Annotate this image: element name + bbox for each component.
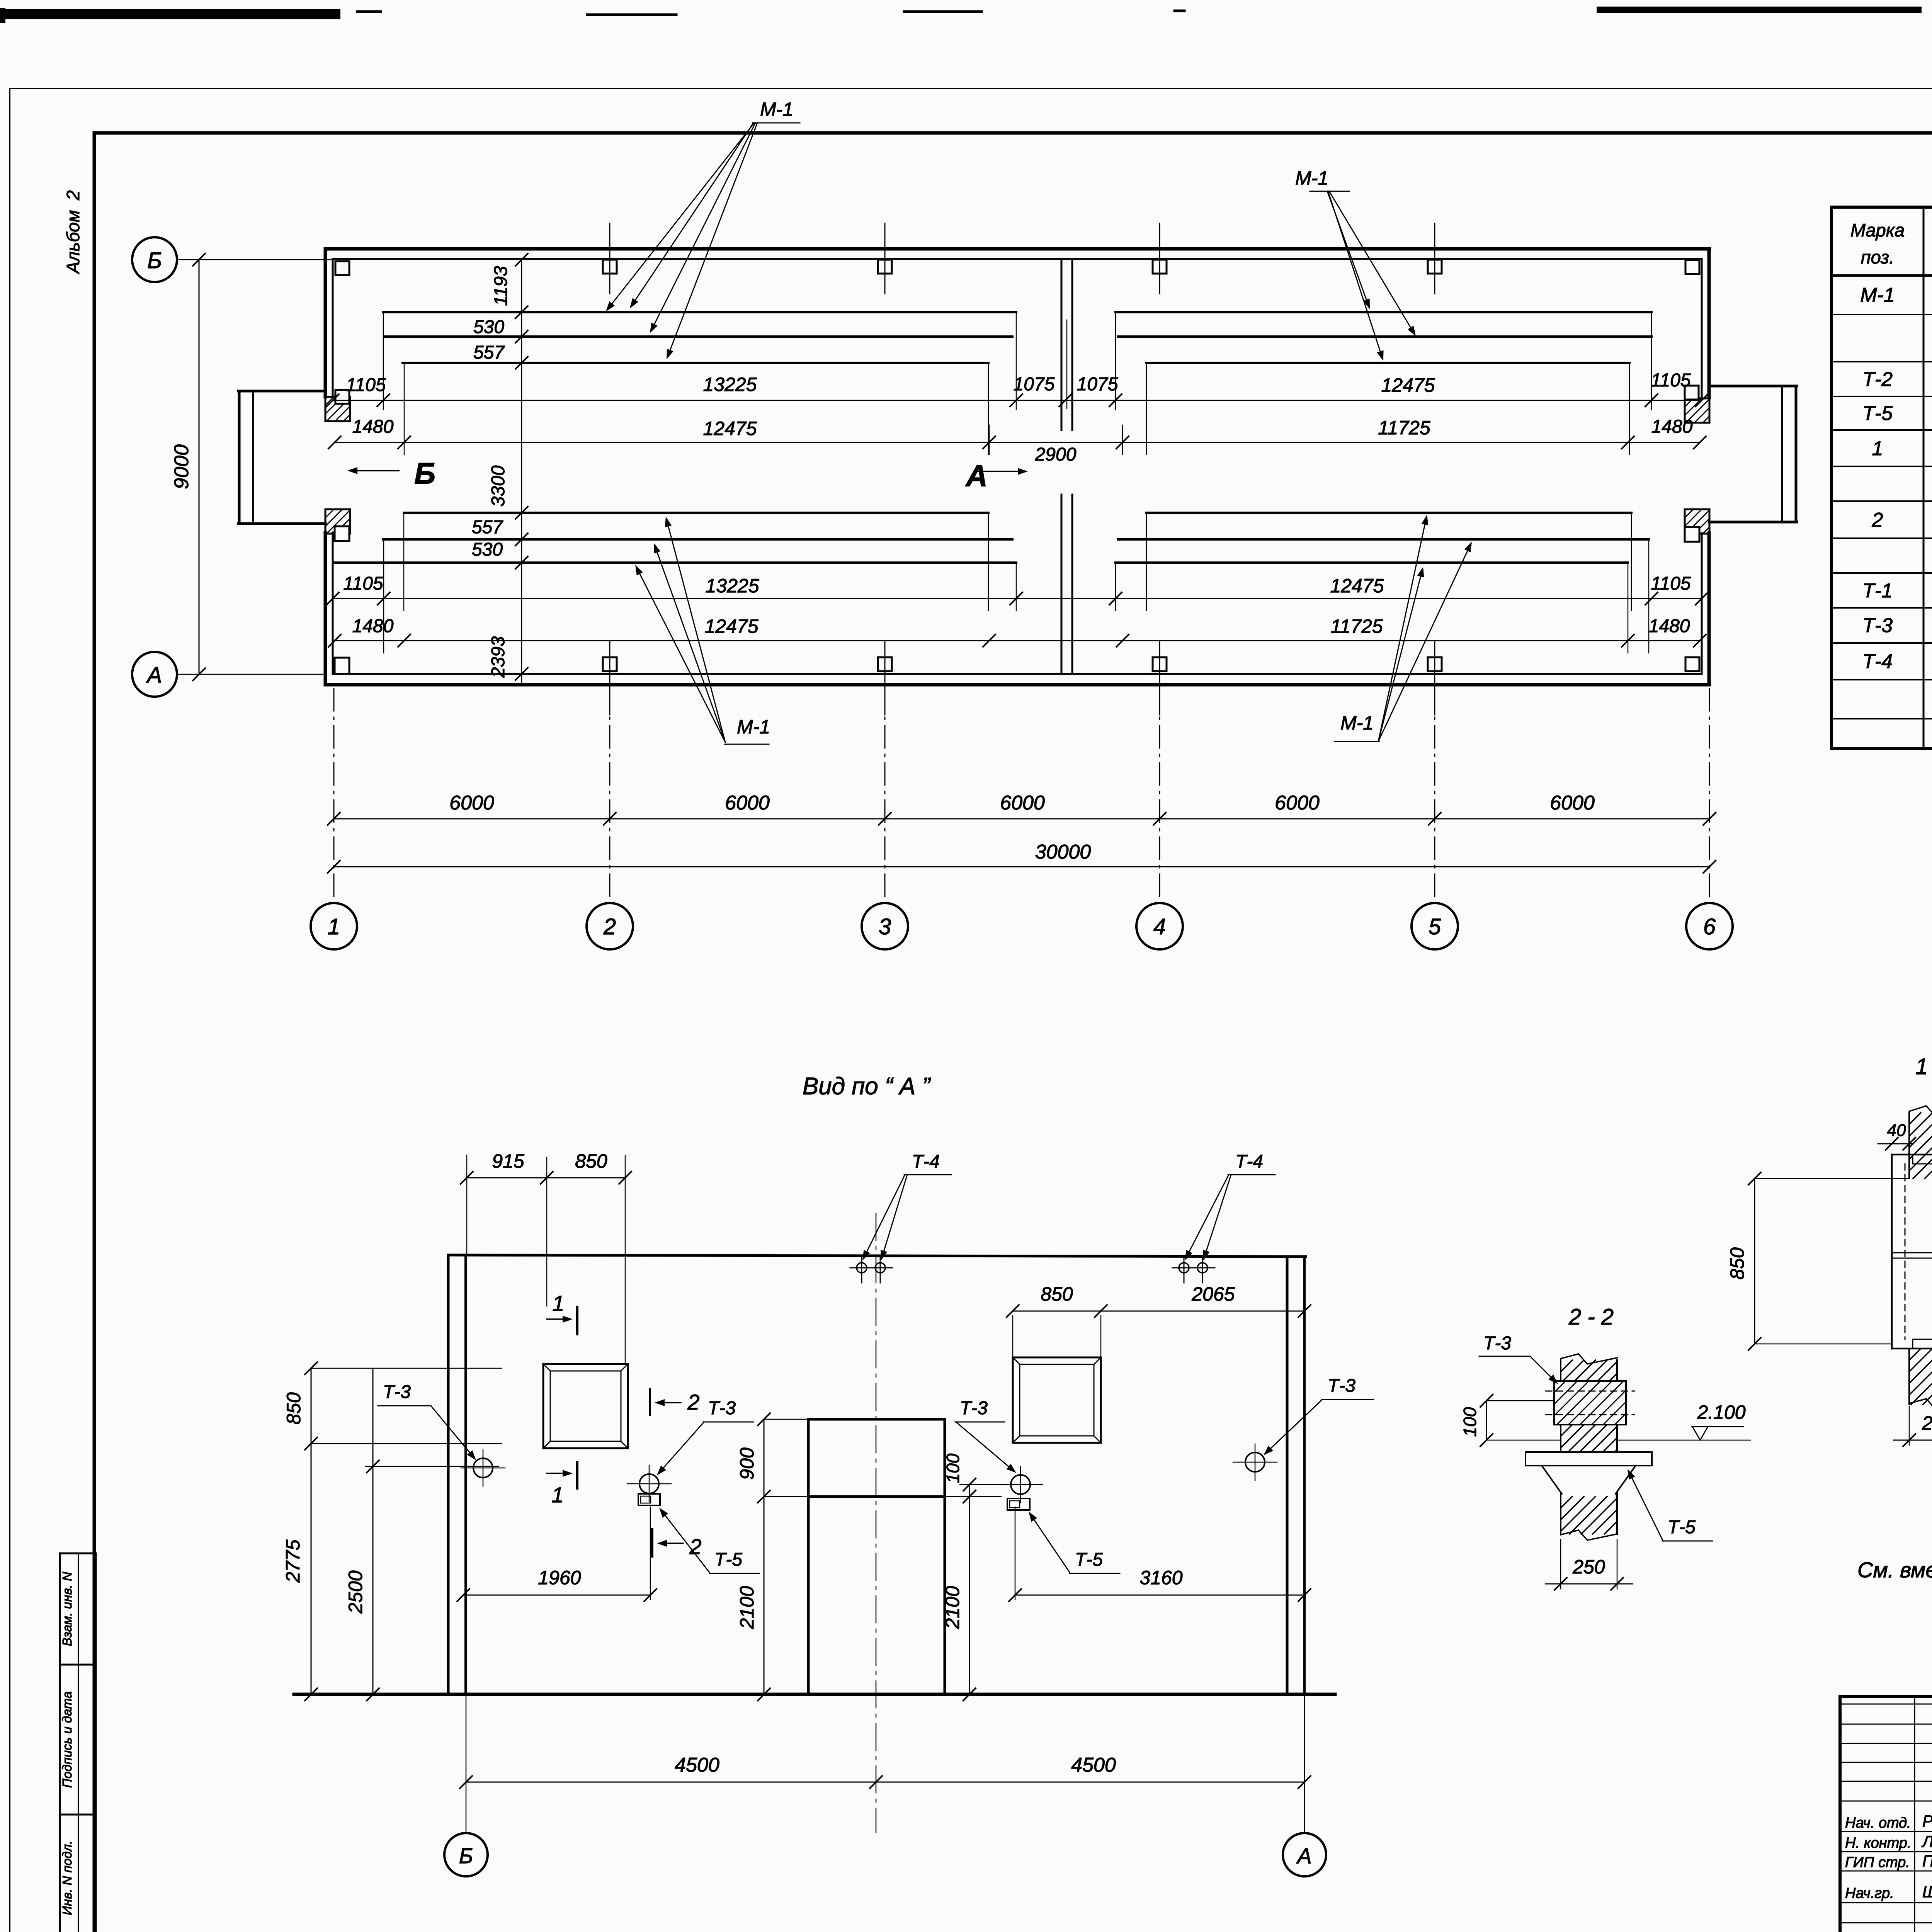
svg-text:12475: 12475: [704, 616, 758, 637]
svg-text:900: 900: [736, 1447, 758, 1480]
dimension row 6000: [328, 792, 1716, 825]
section 2-2 wall middle: [1561, 1425, 1617, 1452]
svg-text:Нач. отд.: Нач. отд.: [1845, 1815, 1911, 1831]
svg-text:850: 850: [283, 1392, 304, 1425]
plan right wall inner: [1701, 259, 1703, 674]
svg-text:1: 1: [552, 1291, 564, 1315]
svg-text:850: 850: [1726, 1247, 1748, 1280]
floor channel line L2: [385, 335, 1651, 338]
plan extension lines bottom: [384, 513, 1649, 653]
svg-text:1075: 1075: [1077, 374, 1118, 395]
svg-text:12475: 12475: [1381, 374, 1435, 396]
section 2-2 elevation 2.100: [1617, 1401, 1750, 1440]
svg-text:Парфенов: Парфенов: [1922, 1852, 1932, 1870]
svg-text:30000: 30000: [1035, 841, 1091, 863]
svg-text:1075: 1075: [1014, 374, 1055, 395]
floor channel line L3: [403, 362, 1629, 364]
title block role 3: [1845, 1852, 1932, 1871]
svg-text:2: 2: [687, 1390, 699, 1414]
svg-text:Т-3: Т-3: [383, 1382, 411, 1402]
section mark 1 upper: [547, 1291, 577, 1334]
svg-text:Т-5: Т-5: [1075, 1549, 1103, 1570]
svg-text:Т-2: Т-2: [1862, 368, 1893, 391]
view A dimension 850 2775: [282, 1362, 502, 1701]
scan artifact dashes top-middle: [587, 11, 1184, 15]
label T-5 right: [1029, 1512, 1120, 1573]
plan dimension line B bottom: [328, 616, 1706, 647]
svg-text:12475: 12475: [1330, 575, 1384, 597]
spec row T-4: [1862, 650, 1932, 673]
svg-text:Т-5: Т-5: [1668, 1517, 1696, 1537]
svg-text:Т-4: Т-4: [1235, 1151, 1263, 1172]
svg-text:2500: 2500: [345, 1570, 366, 1614]
label M-1 top-left: [606, 99, 800, 359]
svg-text:5: 5: [1429, 914, 1441, 939]
stamp label podpis: [60, 1691, 74, 1788]
title block role 4: [1845, 1883, 1932, 1902]
section 1-1 dimension 850: [1726, 1172, 1909, 1350]
spec row 2: [1872, 509, 1932, 531]
plan dimension line B top: [328, 417, 1706, 465]
M-1 squares bottom wall: [335, 657, 1699, 674]
svg-text:1480: 1480: [1651, 417, 1693, 437]
embedded item T-2 bottom-right: [1685, 509, 1709, 534]
svg-text:2775: 2775: [282, 1539, 304, 1583]
section mark 1 lower: [547, 1462, 577, 1507]
svg-text:1960: 1960: [538, 1567, 581, 1588]
svg-text:11725: 11725: [1330, 616, 1383, 637]
M-1 squares top wall: [335, 260, 1699, 275]
svg-text:поз.: поз.: [1861, 247, 1894, 267]
svg-text:2100: 2100: [736, 1586, 758, 1629]
svg-text:1480: 1480: [1649, 616, 1690, 636]
spec row M-1: [1860, 284, 1932, 306]
svg-text:4: 4: [1153, 914, 1166, 939]
svg-text:1193: 1193: [491, 266, 511, 306]
svg-text:2.100: 2.100: [1697, 1401, 1745, 1423]
view A T-5 mark right: [1007, 1498, 1030, 1510]
grid axis dash-dot lines: [334, 689, 1709, 903]
M-1 square jamb top-right: [1685, 386, 1699, 400]
title block role 1: [1845, 1812, 1932, 1832]
svg-text:1: 1: [328, 914, 340, 939]
label T-4 left: [862, 1151, 951, 1260]
svg-text:М-1: М-1: [1860, 284, 1895, 306]
view A dimension 915 850: [461, 1150, 631, 1364]
view A door centerline: [876, 1213, 877, 1832]
left stamp boxes: [60, 1553, 96, 1932]
spec row T-5: [1862, 402, 1932, 425]
section 1-1 wall lower: [1909, 1349, 1932, 1410]
svg-text:Т-1: Т-1: [1862, 580, 1893, 602]
stamp label inv: [60, 1841, 74, 1915]
note see sheets: [1857, 1558, 1932, 1582]
svg-text:1: 1: [1872, 437, 1883, 460]
right portal: [1709, 386, 1797, 522]
svg-text:А: А: [1296, 1844, 1311, 1868]
view A wall right edge: [1287, 1257, 1304, 1694]
svg-text:4500: 4500: [1071, 1754, 1116, 1776]
grid circle 3: [862, 903, 908, 949]
view A dimension 100 2100: [942, 1453, 1009, 1701]
svg-text:2065: 2065: [1191, 1283, 1235, 1305]
svg-text:2900: 2900: [1035, 444, 1077, 465]
floor channel line B2: [383, 538, 1649, 541]
svg-text:М-1: М-1: [737, 716, 770, 738]
section mark 2 lower: [652, 1529, 702, 1559]
plan top wall inner: [333, 258, 1702, 260]
album label rotated: [63, 190, 83, 275]
svg-text:11725: 11725: [1378, 417, 1430, 439]
plan left wall inner: [332, 259, 334, 674]
svg-text:2: 2: [603, 914, 616, 939]
label T-3 left-centre: [657, 1398, 753, 1475]
label M-1 top-right: [1295, 167, 1416, 361]
svg-text:3: 3: [879, 914, 891, 939]
svg-text:4500: 4500: [675, 1754, 719, 1776]
title block grid: [1840, 1696, 1932, 1932]
svg-text:3300: 3300: [488, 465, 509, 507]
label T-3 right-centre: [955, 1398, 1016, 1473]
view A dimension 900 2100: [736, 1413, 808, 1701]
svg-text:Лизунова: Лизунова: [1921, 1832, 1932, 1850]
spec table grid: [1832, 207, 1932, 748]
view A grid circle A: [1283, 1833, 1326, 1876]
svg-text:Марка: Марка: [1850, 220, 1905, 240]
svg-text:Б: Б: [459, 1844, 473, 1868]
floor channel line B3: [404, 512, 1631, 514]
svg-text:100: 100: [1460, 1407, 1480, 1437]
label T-3 right wall: [1264, 1376, 1374, 1455]
svg-text:1105: 1105: [1651, 573, 1691, 594]
svg-text:Б: Б: [147, 248, 162, 273]
svg-text:2: 2: [1872, 509, 1883, 531]
grid circle 2: [587, 903, 633, 949]
label T-4 right: [1185, 1151, 1275, 1260]
svg-text:2 - 2: 2 - 2: [1568, 1304, 1614, 1330]
fire partition upper: [1061, 259, 1072, 430]
section 2-2 wall lower: [1561, 1492, 1617, 1540]
plan central vertical dimension chain: [472, 253, 528, 685]
view A T-4 anchors right: [1172, 1256, 1215, 1283]
label M-1 bottom-left: [635, 517, 770, 744]
svg-text:100: 100: [943, 1453, 963, 1483]
svg-text:Т-5: Т-5: [714, 1549, 742, 1570]
svg-text:40: 40: [1887, 1121, 1906, 1140]
svg-text:1 - 1: 1 - 1: [1915, 1054, 1932, 1079]
section arrow A: [965, 459, 1028, 493]
svg-text:12475: 12475: [703, 418, 757, 439]
floor channel line B1: [334, 561, 1628, 564]
svg-text:ГИП стр.: ГИП стр.: [1845, 1854, 1910, 1871]
fire partition lower: [1061, 495, 1072, 674]
section 2-2 label T-5: [1628, 1469, 1713, 1541]
svg-text:6000: 6000: [1550, 792, 1595, 814]
svg-text:Инв. N подл.: Инв. N подл.: [60, 1841, 74, 1915]
section 2-2 item T-5 seat: [1526, 1452, 1652, 1494]
svg-text:Вид по “ А ”: Вид по “ А ”: [803, 1073, 931, 1100]
svg-text:557: 557: [472, 517, 503, 537]
view A T-5 mark left: [638, 1494, 660, 1505]
grid circle 1: [311, 903, 357, 949]
svg-text:915: 915: [492, 1150, 524, 1172]
section 2-2 label T-3: [1479, 1333, 1558, 1384]
svg-text:1: 1: [551, 1483, 563, 1507]
view A ground line: [294, 1693, 1335, 1696]
grid circle A plan: [132, 652, 325, 697]
svg-text:3160: 3160: [1139, 1567, 1182, 1588]
view A dimension 2500: [345, 1368, 499, 1701]
svg-text:М-1: М-1: [1340, 712, 1374, 734]
svg-text:Т-4: Т-4: [1862, 650, 1893, 673]
view A T-3 pipe left wall: [461, 1450, 505, 1486]
svg-text:Нач.гр.: Нач.гр.: [1845, 1885, 1894, 1901]
embedded item T-2 bottom-left: [325, 509, 350, 534]
section 2-2 wall upper: [1561, 1354, 1617, 1381]
svg-text:Роменский: Роменский: [1922, 1812, 1932, 1830]
section 2-2 dimension 250: [1546, 1539, 1633, 1590]
view A T-3 pipe right wall: [1233, 1444, 1277, 1480]
svg-text:9000: 9000: [170, 444, 193, 489]
section 1-1 dimension 40 left: [1878, 1121, 1915, 1150]
svg-text:1480: 1480: [352, 616, 394, 636]
view A T-3 pipe right-centre: [998, 1466, 1043, 1503]
plan right wall outer: [1708, 249, 1711, 685]
plan top wall outer: [325, 247, 1709, 251]
plan bottom wall outer: [325, 683, 1709, 687]
spec table header texts: [1850, 220, 1932, 270]
label T-3 left wall: [378, 1382, 476, 1460]
view A wall top: [448, 1255, 1306, 1257]
svg-text:530: 530: [472, 539, 503, 560]
title block role 2: [1845, 1832, 1932, 1852]
svg-text:13225: 13225: [705, 575, 759, 597]
svg-text:Т-3: Т-3: [960, 1398, 988, 1418]
svg-text:Н. контр.: Н. контр.: [1845, 1835, 1911, 1851]
view A T-4 anchors left: [850, 1256, 893, 1283]
svg-text:Т-3: Т-3: [1483, 1333, 1511, 1354]
svg-text:2393: 2393: [488, 636, 509, 678]
section 1-1 channel item T-2: [1892, 1155, 1932, 1349]
svg-text:1105: 1105: [1651, 370, 1691, 391]
embedded item T-2 top-left: [325, 397, 350, 421]
svg-text:6000: 6000: [725, 792, 770, 814]
embedded item T-2 top-right: [1685, 398, 1709, 423]
svg-text:6000: 6000: [1000, 792, 1045, 814]
scan speck left edge: [0, 8, 5, 23]
svg-text:А: А: [146, 663, 162, 688]
svg-text:Шленова: Шленова: [1922, 1883, 1932, 1901]
svg-text:М-1: М-1: [1295, 167, 1328, 189]
svg-text:850: 850: [575, 1150, 607, 1172]
stamp label vzam: [60, 1572, 74, 1646]
label M-1 bottom-right: [1334, 515, 1472, 742]
plan bottom wall inner: [333, 673, 1702, 675]
svg-text:Альбом 2: Альбом 2: [63, 190, 83, 275]
view A dimension 3160: [1009, 1507, 1311, 1601]
left portal: [238, 391, 325, 524]
svg-text:6: 6: [1703, 914, 1716, 939]
svg-text:Т-3: Т-3: [1328, 1376, 1355, 1396]
M-1 square jamb bottom-right: [1685, 527, 1699, 542]
svg-text:1480: 1480: [352, 417, 394, 437]
svg-text:850: 850: [1041, 1283, 1073, 1305]
M-1 square jamb top-left: [335, 390, 349, 404]
svg-text:Т-3: Т-3: [1862, 614, 1893, 637]
spec row T-3: [1862, 614, 1932, 637]
section 2-2 pipe T-3: [1546, 1381, 1634, 1425]
axis stubs bottom wall: [610, 641, 1435, 715]
view A dimension 850 2065: [1007, 1283, 1311, 1357]
svg-text:6000: 6000: [449, 792, 494, 814]
svg-text:Подпись и дата: Подпись и дата: [60, 1691, 74, 1788]
svg-text:Взам. инв. N: Взам. инв. N: [60, 1572, 74, 1646]
plan dimension line A top: [327, 370, 1708, 406]
svg-text:557: 557: [473, 342, 505, 363]
svg-text:Т-3: Т-3: [708, 1398, 736, 1418]
svg-text:Т-5: Т-5: [1862, 402, 1893, 425]
svg-text:1105: 1105: [343, 573, 383, 594]
label T-5 left: [659, 1508, 759, 1573]
svg-text:Б: Б: [414, 456, 435, 490]
view A door opening: [808, 1419, 945, 1694]
view A dimension 1960: [457, 1507, 656, 1601]
axis stubs top wall: [610, 223, 1435, 294]
svg-text:Т-4: Т-4: [912, 1151, 940, 1172]
view A wall left edge: [448, 1255, 466, 1694]
scan artifact bar top-right: [1600, 5, 1932, 10]
M-1 square jamb bottom-left: [335, 526, 349, 541]
svg-text:530: 530: [473, 317, 504, 337]
section 2-2 dimension 100: [1460, 1395, 1561, 1446]
floor channel line L1: [383, 311, 1651, 313]
view A dimension 4500 4500: [460, 1694, 1311, 1832]
spec row T-2: [1862, 368, 1932, 391]
svg-text:2100: 2100: [942, 1586, 963, 1629]
svg-text:250: 250: [1572, 1556, 1605, 1578]
view A T-3 pipe left-centre: [627, 1466, 671, 1502]
dimension 30000: [328, 841, 1716, 873]
view A grid circle B: [444, 1833, 488, 1876]
view A left opening: [543, 1364, 628, 1448]
svg-text:6000: 6000: [1275, 792, 1320, 814]
plan left wall outer: [324, 249, 327, 685]
svg-text:2: 2: [689, 1534, 701, 1559]
grid circle 4: [1136, 903, 1183, 949]
plan extension lines top: [383, 312, 1651, 454]
section arrow B: [347, 456, 435, 490]
dimension 9000: [170, 253, 205, 680]
svg-text:См. вместе с листами АС- 3,13: См. вместе с листами АС- 3,13,16,17: [1857, 1558, 1932, 1582]
svg-text:А: А: [965, 459, 988, 493]
section mark 2 upper: [650, 1389, 700, 1415]
grid circle B plan: [132, 237, 333, 282]
section 2-2 title: [1568, 1304, 1614, 1330]
svg-text:М-1: М-1: [760, 99, 793, 120]
svg-text:13225: 13225: [703, 374, 757, 395]
section 1-1 title: [1915, 1054, 1932, 1079]
spec row T-1: [1862, 580, 1932, 602]
grid circle 6: [1686, 903, 1733, 949]
svg-text:250: 250: [1922, 1412, 1932, 1434]
view A right opening: [1013, 1357, 1101, 1443]
view A title: [803, 1073, 931, 1100]
plan dimension line A bottom: [327, 573, 1708, 605]
grid circle 5: [1412, 903, 1458, 949]
scan artifact bar top-left: [0, 12, 381, 14]
svg-text:1105: 1105: [346, 375, 386, 395]
section 1-1 wall upper: [1909, 1106, 1932, 1179]
section 1-1 dimension 250: [1893, 1406, 1932, 1446]
spec row 1: [1872, 437, 1932, 460]
